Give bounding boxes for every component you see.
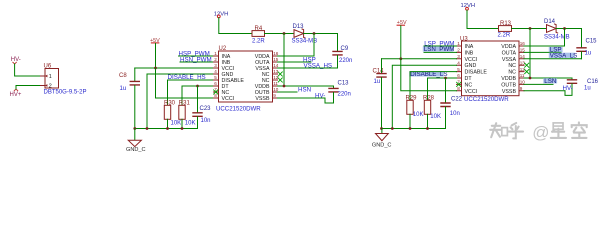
svg-text:220n: 220n — [338, 91, 351, 97]
svg-text:VSSA_LS: VSSA_LS — [550, 52, 578, 59]
wire VDDB pin 11 to C13 top — [278, 86, 334, 88]
op-amp U3 UCC21520DWR body — [460, 36, 519, 103]
label HSP_PWM — [179, 50, 214, 57]
label LSP_PWM — [424, 40, 457, 47]
wire VCCI node down to U3 pin 8 — [401, 59, 457, 91]
svg-text:1u: 1u — [584, 85, 591, 91]
wire VDDB pin 11 to C16 top — [524, 78, 572, 79]
svg-text:6: 6 — [457, 73, 460, 78]
wire R4 to D13 — [265, 33, 295, 35]
svg-text:6: 6 — [214, 81, 217, 86]
capacitor C13 — [325, 81, 351, 103]
wire 12V node down to VDDB pin 11 — [529, 29, 531, 79]
node cathode junction — [313, 32, 316, 35]
svg-text:2: 2 — [49, 84, 52, 90]
svg-text:10n: 10n — [450, 111, 460, 117]
svg-text:VSSB: VSSB — [502, 89, 517, 95]
svg-text:5: 5 — [214, 75, 217, 80]
node VCCI junction (right) — [399, 57, 402, 60]
node VDDB junction (right) — [529, 77, 532, 80]
U2 pin names right — [255, 54, 270, 102]
wire R13 to D14 — [512, 28, 547, 30]
svg-text:C22: C22 — [451, 97, 463, 103]
wire U3 GND pin 4 to rail — [392, 65, 456, 128]
svg-text:4: 4 — [214, 69, 217, 74]
svg-text:10K: 10K — [185, 121, 196, 127]
svg-text:VDDA: VDDA — [501, 44, 516, 50]
label LSN highlighted on OUTB — [524, 78, 557, 85]
U2 pin names left — [222, 54, 245, 102]
svg-text:D14: D14 — [544, 19, 556, 25]
wire D13 cathode to C9 top — [304, 34, 338, 52]
svg-text:HSN: HSN — [298, 86, 311, 93]
svg-text:VCCI: VCCI — [222, 96, 235, 102]
wire cathode node down to VDDA pin 16 — [278, 34, 315, 57]
U2 pin numbers left — [214, 51, 217, 98]
resistor R30 — [164, 101, 181, 129]
svg-text:SS34-MB: SS34-MB — [292, 39, 318, 45]
capacitor C8 — [119, 68, 139, 129]
U3 no-connect X pin 7 — [457, 82, 461, 86]
svg-text:14: 14 — [520, 54, 526, 59]
wire +5V down to VCCI node — [400, 26, 402, 59]
op-amp U2 UCC21520DWR body — [216, 46, 273, 112]
U3 pin numbers right — [520, 41, 526, 91]
svg-text:C8: C8 — [119, 73, 127, 79]
svg-text:9: 9 — [520, 86, 523, 91]
svg-text:UCC21520DWR: UCC21520DWR — [216, 105, 261, 112]
svg-text:1u: 1u — [120, 86, 127, 92]
node post-R13 junction — [529, 27, 532, 30]
wire 12V node down to VDDB pin 11 — [283, 34, 285, 87]
svg-text:9: 9 — [273, 93, 276, 98]
wire DT to R28 — [428, 78, 457, 100]
label DISABLE_LS highlighted — [409, 71, 456, 100]
svg-text:DT: DT — [465, 76, 473, 82]
node DT junction (right) — [444, 77, 447, 80]
wire DT to R31 — [182, 86, 214, 105]
U2 no-connect X pin 7 — [214, 90, 218, 94]
svg-text:GND: GND — [465, 63, 477, 69]
capacitor C9 — [333, 46, 352, 68]
node rail junction R28 — [426, 127, 429, 130]
svg-text:2.2R: 2.2R — [252, 39, 265, 45]
svg-text:1u: 1u — [585, 50, 592, 56]
node rail junction GND pin (right) — [391, 127, 394, 130]
svg-text:10n: 10n — [201, 118, 211, 124]
svg-text:16: 16 — [273, 51, 279, 56]
label VSSA_LS highlighted wire to C15 bottom — [524, 52, 582, 59]
svg-text:2.2R: 2.2R — [498, 32, 511, 38]
wire 12VH down to R13 — [467, 10, 499, 28]
svg-text:C13: C13 — [338, 81, 350, 87]
svg-text:DBT50G-9.5-2P: DBT50G-9.5-2P — [44, 90, 87, 96]
svg-text:12VH: 12VH — [214, 11, 229, 17]
netflag +5V (right) — [397, 20, 407, 26]
wire VCCI rail to U3 pin 3 — [382, 58, 457, 60]
label HV- on VSSB — [278, 92, 326, 99]
capacitor C16 — [565, 79, 599, 96]
label HV- on VSSB (right) — [524, 85, 573, 92]
svg-text:10: 10 — [520, 80, 526, 85]
U2 pin numbers right — [273, 51, 279, 98]
capacitor C15 — [577, 39, 597, 59]
svg-text:GND_C: GND_C — [126, 147, 146, 153]
node rail junction R31 — [181, 127, 184, 130]
resistor R31 — [179, 101, 196, 129]
label VSSA_HS wire to C9 bottom — [278, 62, 338, 69]
svg-text:VSSA: VSSA — [502, 57, 517, 63]
diode D13 SS34-MB — [292, 24, 318, 45]
U2 no-connect X pin 12 — [278, 78, 282, 82]
U3 pin numbers left — [457, 41, 460, 91]
wire cathode node down to VDDA pin 16 — [524, 29, 565, 47]
label HSP on OUTA — [278, 56, 316, 63]
wire HV+ to U6 pin 2 — [16, 86, 41, 90]
svg-text:220n: 220n — [339, 58, 352, 64]
node rail junction C14 — [380, 127, 383, 130]
resistor R4 — [252, 26, 265, 45]
U2 left pin stubs 1-8 — [214, 56, 219, 98]
svg-text:11: 11 — [520, 73, 525, 78]
svg-text:VCCI: VCCI — [465, 57, 478, 63]
node VCCI junction — [154, 67, 157, 70]
svg-text:OUTA: OUTA — [502, 50, 517, 56]
wire ground rail (left block) — [135, 128, 198, 130]
wire VCCI rail to U2 pin 3 — [135, 67, 214, 69]
node rail junction GND pin — [146, 127, 149, 130]
svg-text:HV+: HV+ — [10, 92, 22, 98]
svg-text:VDDB: VDDB — [501, 76, 516, 82]
svg-text:C23: C23 — [200, 106, 212, 112]
svg-text:INB: INB — [465, 50, 474, 56]
svg-text:1: 1 — [214, 51, 217, 56]
netflag HV- — [11, 57, 21, 64]
svg-text:1u: 1u — [374, 79, 381, 85]
svg-text:8: 8 — [457, 86, 460, 91]
diode D14 SS34-MB — [544, 19, 570, 40]
wire HV- to U6 pin 1 — [15, 64, 41, 76]
svg-text:LSN: LSN — [544, 78, 556, 85]
label LSP highlighted on OUTA — [524, 47, 563, 54]
resistor R29 — [406, 96, 424, 129]
svg-text:SS34-MB: SS34-MB — [544, 34, 570, 40]
netflag +5V (left) — [150, 38, 160, 44]
svg-text:16: 16 — [520, 41, 526, 46]
svg-text:DISABLE: DISABLE — [465, 70, 488, 76]
svg-text:10K: 10K — [171, 121, 182, 127]
svg-text:1: 1 — [49, 74, 52, 80]
svg-text:@: @ — [532, 123, 549, 142]
wire D14 cathode to C15 top — [556, 29, 581, 48]
label HSN on OUTB — [278, 86, 312, 93]
watermark 知乎 @星空 — [490, 122, 587, 138]
svg-text:4: 4 — [457, 60, 460, 65]
svg-text:NC: NC — [465, 82, 473, 88]
ground GND_C (right) — [372, 129, 392, 149]
node post-R4 junction — [283, 32, 286, 35]
svg-text:NC: NC — [508, 63, 516, 69]
svg-text:VCCI: VCCI — [465, 89, 478, 95]
netflag HV+ — [10, 89, 22, 98]
connector U6 — [41, 64, 87, 96]
svg-text:NC: NC — [508, 70, 516, 76]
capacitor C22 — [441, 78, 463, 129]
wire U2 GND pin 4 to rail — [147, 74, 214, 129]
U3 left pin stubs 1-8 — [457, 46, 462, 91]
node VDDB junction — [283, 85, 286, 88]
node rail junction R29 — [409, 127, 412, 130]
capacitor C14 — [373, 59, 387, 129]
svg-text:5: 5 — [457, 67, 460, 72]
svg-text:14: 14 — [273, 63, 279, 68]
svg-text:10: 10 — [273, 87, 279, 92]
node rail junction C8 — [133, 127, 136, 130]
label DISABLE_HS — [168, 74, 214, 105]
svg-text:INA: INA — [465, 44, 474, 50]
label LSN_PWM highlighted — [423, 46, 457, 53]
svg-text:OUTB: OUTB — [501, 82, 516, 88]
svg-text:UCC21520DWR: UCC21520DWR — [464, 96, 509, 103]
netflag 12VH (right) — [461, 3, 476, 10]
svg-text:3: 3 — [214, 63, 217, 68]
svg-text:VSSB: VSSB — [255, 96, 270, 102]
node rail junction R30 — [166, 127, 169, 130]
U3 pin names left — [465, 44, 488, 95]
capacitor C23 — [193, 86, 211, 129]
svg-text:C16: C16 — [587, 79, 599, 85]
wire +5V down to VCCI node — [155, 43, 157, 68]
svg-text:10K: 10K — [430, 114, 441, 120]
wire VCCI node down to U2 pin 8 — [156, 68, 214, 98]
resistor R13 — [498, 21, 512, 38]
svg-text:3: 3 — [457, 54, 460, 59]
U3 right pin stubs 16-9 — [519, 46, 524, 91]
node cathode junction (right) — [563, 27, 566, 30]
svg-text:1: 1 — [457, 41, 460, 46]
svg-text:2: 2 — [457, 48, 460, 53]
wire 12VH down to R4 — [219, 18, 252, 34]
svg-text:C15: C15 — [586, 39, 598, 45]
svg-text:10K: 10K — [413, 112, 424, 118]
U2 no-connect X pin 13 — [278, 72, 282, 76]
ground GND_C (left) — [126, 129, 146, 154]
U2 right pin stubs 16-9 — [273, 56, 278, 98]
resistor R28 — [423, 96, 441, 129]
svg-text:8: 8 — [214, 93, 217, 98]
U3 pin names right — [501, 44, 516, 95]
netflag 12VH (left) — [214, 11, 229, 17]
node DT junction — [196, 85, 199, 88]
U3 no-connect X pin 13 — [525, 63, 529, 67]
svg-text:15: 15 — [520, 48, 526, 53]
label HSN_PWM — [180, 56, 214, 63]
wire ground rail (right block) — [382, 128, 446, 130]
svg-text:15: 15 — [273, 57, 279, 62]
svg-text:2: 2 — [214, 57, 217, 62]
U3 no-connect X pin 12 — [525, 70, 529, 74]
svg-text:GND_C: GND_C — [372, 143, 392, 149]
